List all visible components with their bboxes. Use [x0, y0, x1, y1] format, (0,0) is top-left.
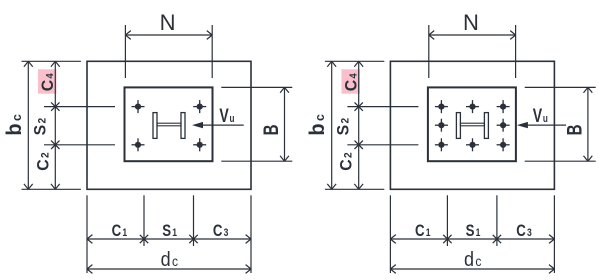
svg-text:bc: bc: [306, 114, 330, 135]
anchor row line 1 (right): [347, 106, 418, 108]
dimension chain C4-S2-C2 line (left): [54, 61, 56, 189]
bottom extension line for b_c (left): [22, 188, 81, 190]
svg-text:C2: C2: [34, 152, 53, 171]
column I-section right flange (left): [181, 113, 185, 139]
anchor bolt 4 (left): [193, 138, 206, 151]
svg-text:bc: bc: [2, 114, 26, 135]
column I-section right flange (right): [484, 113, 488, 139]
top extension line for b_c (right): [325, 60, 384, 62]
svg-text:C3: C3: [213, 222, 229, 241]
dimension chain c1-s1-c3 line (right): [390, 238, 554, 240]
base plate (right): [428, 87, 516, 161]
anchor row line 2 (right): [347, 144, 418, 146]
base plate (left): [125, 87, 213, 161]
dimension B line (right): [587, 87, 589, 161]
anchor bolt 7 (right): [466, 138, 479, 151]
svg-text:S1: S1: [466, 222, 481, 241]
dimension b_c line (right): [331, 61, 333, 189]
anchor bolt 1 (left): [132, 100, 145, 113]
dimension N extension line right (right): [515, 25, 517, 78]
column I-section web (left): [157, 123, 181, 126]
column I-section left flange (left): [153, 113, 157, 139]
svg-text:C2: C2: [337, 152, 356, 171]
bottom extension line for b_c (right): [325, 188, 384, 190]
anchor bolt 1 (right): [435, 100, 448, 113]
dimension d_c line (right): [390, 268, 554, 270]
extension stub at concrete left edge (left): [86, 195, 88, 273]
svg-text:S2: S2: [31, 118, 50, 136]
anchor bolt 2 (left): [193, 100, 206, 113]
dimension chain C4-S2-C2 line (right): [358, 61, 360, 189]
concrete pedestal outline (left): [87, 61, 251, 189]
force arrow V_U (left): [201, 124, 244, 126]
svg-text:S2: S2: [334, 118, 353, 136]
dimension d_c line (left): [87, 268, 251, 270]
svg-text:C1: C1: [415, 222, 431, 241]
chain junction mark col2 (left): [189, 235, 197, 243]
extension stub anchor column 1 (right): [446, 195, 448, 246]
dimension B extension line bottom (right): [525, 160, 596, 162]
anchor bolt 8 (right): [497, 138, 510, 151]
extension stub anchor column 1 (left): [143, 195, 145, 246]
chain junction mark col2 (right): [493, 235, 501, 243]
chain junction mark row2 (right): [355, 141, 363, 149]
svg-text:S1: S1: [162, 222, 177, 241]
dimension B extension line top (left): [221, 86, 292, 88]
anchor bolt 2 (right): [466, 100, 479, 113]
svg-text:Vu: Vu: [533, 105, 548, 127]
dimension N extension line left (left): [124, 25, 126, 78]
force arrow V_U (right): [526, 124, 566, 126]
column I-section web (right): [460, 123, 484, 126]
highlight box for C4 (right): [341, 69, 360, 93]
svg-text:dc: dc: [464, 249, 482, 271]
svg-text:B: B: [562, 124, 586, 135]
svg-text:N: N: [463, 10, 479, 35]
highlight box for C4 (left): [38, 69, 57, 93]
svg-text:C1: C1: [112, 222, 128, 241]
chain junction mark col1 (left): [140, 235, 148, 243]
svg-text:C3: C3: [516, 222, 532, 241]
anchor row line 1 (left): [44, 106, 115, 108]
dimension N extension line left (right): [428, 25, 430, 78]
chain junction mark row1 (right): [355, 102, 363, 110]
svg-text:B: B: [258, 124, 282, 135]
dimension B extension line top (right): [525, 86, 596, 88]
top extension line for b_c (left): [22, 60, 81, 62]
anchor row line 2 (left): [44, 144, 115, 146]
extension stub at concrete left edge (right): [389, 195, 391, 273]
dimension N line (right): [429, 34, 516, 36]
dimension N extension line right (left): [211, 25, 213, 78]
dimension chain c1-s1-c3 line (left): [87, 238, 251, 240]
svg-text:dc: dc: [161, 249, 179, 271]
chain junction mark col1 (right): [443, 235, 451, 243]
dimension B extension line bottom (left): [221, 160, 292, 162]
dimension b_c line (left): [27, 61, 29, 189]
extension stub at concrete right edge (left): [250, 195, 252, 273]
anchor bolt 3 (right): [497, 100, 510, 113]
concrete pedestal outline (right): [390, 61, 554, 189]
column I-section left flange (right): [456, 113, 460, 139]
svg-text:N: N: [160, 10, 176, 35]
chain junction mark row1 (left): [51, 102, 59, 110]
dimension B line (left): [284, 87, 286, 161]
extension stub at concrete right edge (right): [553, 195, 555, 273]
anchor bolt 4 (right): [435, 119, 448, 132]
chain junction mark row2 (left): [51, 141, 59, 149]
anchor bolt 5 (right): [497, 119, 510, 132]
svg-text:Vu: Vu: [219, 105, 234, 127]
extension stub anchor column 2 (left): [193, 195, 195, 246]
extension stub anchor column 2 (right): [496, 195, 498, 246]
anchor bolt 3 (left): [132, 138, 145, 151]
anchor bolt 6 (right): [435, 138, 448, 151]
dimension N line (left): [125, 34, 212, 36]
